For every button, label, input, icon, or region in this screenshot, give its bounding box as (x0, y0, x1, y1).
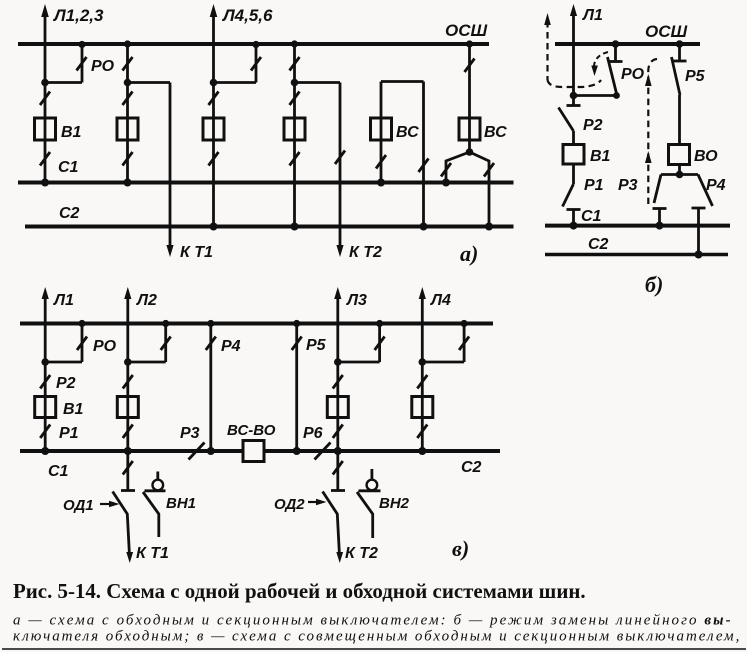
disconnector slash feeder1 lower (40, 152, 50, 166)
load switch VN1 stub (156, 472, 159, 480)
wire feeder3 vertical (212, 13, 215, 227)
disconnector OD1 stub slash (123, 461, 133, 475)
node feederV1 tap on bus (78, 320, 85, 327)
svg-text:а — схема с обходным и секцион: а — схема с обходным и секционным выключ… (13, 613, 733, 629)
disconnector feederV3 tap slash (375, 337, 385, 351)
line L4,5,6 arrow (210, 4, 218, 17)
disconnector R4 stub (697, 208, 700, 255)
wire R4 column vertical (209, 324, 212, 452)
svg-text:ВН1: ВН1 (166, 495, 196, 512)
svg-text:Л4: Л4 (430, 292, 451, 309)
wire bypass VS vertical (468, 44, 471, 152)
svg-text:С1: С1 (58, 159, 79, 176)
wire section breaker top (381, 80, 424, 83)
node feeder2 junction (124, 79, 132, 87)
breaker B1 b (563, 145, 584, 165)
load switch VN2 contact tick (359, 489, 381, 492)
breaker feederV2 (117, 397, 138, 418)
disconnector RO v slash (77, 337, 87, 351)
arrow KT1 v (126, 552, 133, 563)
node feederV4 on C2 (418, 447, 426, 455)
breaker feeder3 (203, 118, 224, 140)
node bypass VS bottom junction (466, 148, 474, 156)
line L1 arrow v (42, 287, 49, 299)
disconnector OD1 stub (126, 451, 129, 490)
svg-text:В1: В1 (61, 124, 82, 141)
svg-text:Л3: Л3 (346, 292, 367, 309)
disconnector R2 stub (572, 96, 575, 106)
svg-text:Р1: Р1 (59, 425, 79, 442)
dashed R3 path vertical (648, 59, 657, 204)
wire KT1 vertical (169, 83, 172, 249)
svg-text:Л1: Л1 (582, 7, 603, 24)
svg-text:Р2: Р2 (583, 117, 603, 134)
svg-text:ОД2: ОД2 (274, 496, 305, 513)
svg-text:К Т2: К Т2 (349, 244, 382, 261)
disconnector R5 stub (678, 44, 681, 60)
breaker VS section (371, 118, 392, 140)
svg-text:Р3: Р3 (180, 425, 200, 442)
line L1 arrow (570, 4, 577, 16)
node feeder1 junction (41, 79, 49, 87)
node feeder2 on bus (124, 40, 131, 47)
svg-text:Л4,5,6: Л4,5,6 (221, 6, 273, 25)
disconnector R1 open blade (563, 184, 574, 207)
line L3 arrow (334, 287, 341, 299)
node R5 on bus v (293, 320, 300, 327)
disconnector R5 open blade (672, 57, 681, 95)
arrowhead RO direction (591, 66, 598, 77)
breaker VS bypass (459, 118, 480, 140)
node R5 on bus (676, 40, 684, 48)
disconnector R4 open blade (698, 175, 713, 207)
disconnector OD1 contact tick (121, 489, 135, 492)
wire bypass branch to C2 (470, 152, 490, 227)
svg-text:ключателя обходным; в — схема: ключателя обходным; в — схема с совмещен… (13, 629, 741, 645)
wire bypass branch to C1 (446, 152, 470, 183)
disconnector OD1 open blade (113, 492, 130, 557)
svg-text:В1: В1 (63, 401, 84, 418)
wire feederV2 junction horizontal (128, 361, 166, 364)
disconnector slash feeder3 lower (209, 152, 219, 166)
disconnector R2 open blade (559, 108, 574, 132)
bottom rule (2, 648, 746, 650)
disconnector R2 contact tick (567, 104, 581, 107)
disconnector R4 contact tick (692, 207, 706, 210)
load switch VN2 stub (370, 469, 373, 480)
svg-text:Р2: Р2 (56, 375, 76, 392)
node bypass on C2 (485, 223, 493, 231)
breaker feeder4 (284, 118, 305, 140)
line L1,2,3 arrow (41, 4, 49, 17)
svg-text:К Т1: К Т1 (180, 244, 213, 261)
svg-text:ОСШ: ОСШ (645, 22, 688, 41)
disconnector OD2 open blade (323, 492, 340, 557)
dashed arrow RO closing direction (594, 52, 608, 69)
svg-text:С2: С2 (588, 236, 609, 253)
node feederV1 junction (41, 358, 49, 366)
disconnector RO b contact tick (609, 60, 623, 63)
breaker B1 (35, 118, 56, 140)
svg-text:В1: В1 (590, 148, 611, 165)
svg-text:ВС-ВО: ВС-ВО (227, 422, 276, 439)
load switch VN2 open blade (357, 492, 373, 538)
disconnector OD2 stub (336, 451, 339, 490)
disconnector slash feeder2 upper (123, 92, 133, 106)
line L2 arrow v (124, 287, 131, 299)
wire feederV4 tap vertical (463, 324, 466, 363)
wire feeder3 junction horizontal (214, 81, 257, 84)
wire VO right branch horizontal (680, 173, 699, 176)
arrowhead R3 path lower (645, 151, 652, 163)
svg-text:а): а) (460, 241, 478, 266)
node feederV3 junction (334, 358, 342, 366)
disconnector R1 v slash (40, 425, 50, 439)
svg-text:ВС: ВС (396, 124, 419, 141)
wire VO left branch horizontal (661, 173, 680, 176)
wire B1-R1 (572, 164, 575, 184)
dashed bypass flow curve (548, 80, 602, 87)
svg-text:С2: С2 (461, 459, 482, 476)
node bypass VS on bus (466, 40, 473, 47)
disconnector R5 v slash (292, 337, 302, 351)
svg-text:ОД1: ОД1 (63, 497, 94, 514)
node feederV2 tap on bus (162, 320, 169, 327)
node VS on C1 (377, 179, 385, 187)
arrowhead OD2 pointer (316, 499, 327, 505)
node feeder4 on bus (291, 40, 298, 47)
wire section breaker left leg (380, 82, 383, 183)
disconnector R3 stub (658, 209, 661, 226)
node L1 junction b (570, 92, 578, 100)
svg-text:РО: РО (91, 58, 115, 75)
svg-text:К Т1: К Т1 (136, 545, 169, 562)
svg-text:Р4: Р4 (221, 338, 241, 355)
node R4 on bus (207, 320, 214, 327)
arrowhead OD1 pointer (109, 501, 120, 507)
wire feederV4 junction horizontal (422, 361, 464, 364)
disconnector feederV2 lower slash (123, 425, 133, 439)
node RO tap on bus (78, 41, 85, 48)
wire feederV2 tap vertical (164, 324, 167, 363)
svg-text:ВС: ВС (484, 124, 507, 141)
load switch VN1 circle (153, 480, 164, 491)
node feederV3 on C2 (334, 447, 342, 455)
disconnector R1 contact tick (567, 208, 581, 211)
node R3 on C1 (656, 222, 664, 230)
svg-text:К Т2: К Т2 (345, 545, 378, 562)
bus C2 (working bus section 2) (25, 225, 514, 229)
bus OSSH (bypass busbar) (18, 42, 489, 46)
svg-text:С2: С2 (59, 205, 80, 222)
bus OSSH b (555, 42, 700, 46)
disconnector R4 v slash (206, 337, 216, 351)
wire feeder4 vertical (293, 44, 296, 227)
wire feederV2 vertical (126, 295, 129, 451)
svg-text:б): б) (645, 272, 663, 297)
node feeder4 on C2 (291, 223, 299, 231)
disconnector slash bypass-C1 (441, 163, 451, 177)
node R4 on C2 (695, 251, 703, 259)
disconnector slash KT2 (335, 151, 345, 165)
wire RO tap vertical (81, 44, 84, 83)
wire R5 column vertical (295, 324, 298, 452)
disconnector R5 contact tick (673, 60, 687, 63)
disconnector feederV4 tap slash (459, 337, 469, 351)
disconnector feederV2 upper slash (123, 375, 133, 389)
disconnector slash feeder3 upper (209, 92, 219, 106)
svg-text:ОСШ: ОСШ (445, 21, 488, 40)
node feederV4 tap on bus (461, 320, 468, 327)
arrow KT1 (166, 245, 173, 257)
svg-text:РО: РО (621, 66, 645, 83)
disconnector slash feeder1 upper (40, 92, 50, 106)
wire to KT2 horizontal (295, 81, 341, 84)
svg-text:С1: С1 (48, 463, 69, 480)
wire feeder3 tap vertical (255, 44, 258, 83)
disconnector R3 contact tick (653, 207, 667, 210)
wire section breaker right leg (422, 82, 425, 227)
disconnector slash feeder2 lower (123, 152, 133, 166)
wire feeder1 vertical (44, 13, 47, 183)
svg-text:Л1: Л1 (53, 292, 74, 309)
disconnector RO slash (77, 57, 87, 71)
node RO b on bus (612, 40, 620, 48)
wire KT2 vertical (339, 83, 342, 249)
node VO bottom junction (676, 171, 684, 179)
disconnector feederV4 lower slash (417, 425, 427, 439)
wire R2-B1 (572, 131, 575, 145)
breaker B1 v (35, 397, 56, 418)
load switch VN1 contact tick (145, 489, 166, 492)
node feederV2 junction (124, 358, 132, 366)
load switch VN1 open blade (143, 492, 159, 537)
disconnector R3 v slash on bus (189, 443, 205, 460)
svg-text:Л2: Л2 (136, 292, 157, 309)
dashed bypass flow arrow up (544, 13, 551, 25)
node bypass on C1 (442, 179, 450, 187)
node feeder3 tap on bus (252, 41, 259, 48)
wire VO bottom stub (678, 165, 681, 175)
disconnector slash VS right (419, 159, 429, 173)
disconnector R3 open blade (654, 175, 661, 204)
disconnector OD2 stub slash (333, 461, 343, 475)
arrow OD2 pointer (308, 501, 319, 503)
wire feeder2 vertical (126, 44, 129, 183)
wire L1 vertical (572, 12, 575, 96)
wire L1-RO horizontal (574, 94, 618, 97)
node feederV3 tap on bus (376, 320, 383, 327)
node feederV2 on C1 (124, 447, 132, 455)
svg-text:Рис. 5-14. Схема с одной рабоч: Рис. 5-14. Схема с одной рабочей и обход… (13, 579, 586, 603)
bus OSSH v (20, 322, 493, 326)
disconnector slash bypass VS top (465, 59, 475, 73)
disconnector slash VS left (376, 155, 386, 169)
disconnector R6 slash on bus (315, 443, 331, 460)
disconnector feederV4 upper slash (417, 375, 427, 389)
wire feederV4 vertical (421, 295, 424, 451)
node feeder2 on C1 (124, 179, 132, 187)
node feeder3 junction (210, 79, 218, 87)
wire feederV3 tap vertical (378, 324, 381, 363)
svg-text:Л1,2,3: Л1,2,3 (52, 6, 104, 25)
svg-text:РО: РО (93, 338, 117, 355)
breaker feederV4 (412, 397, 433, 418)
disconnector feederV2 tap slash (161, 337, 171, 351)
arrowhead R3 path upper (645, 74, 652, 86)
wire feederV3 junction horizontal (338, 361, 380, 364)
node R4 bottom junction (207, 447, 215, 455)
disconnector slash bypass-C2 (484, 163, 494, 177)
breaker VS-VO (243, 441, 264, 462)
wire to KT1 horizontal (128, 81, 171, 84)
node feederV1 on C1 (41, 447, 49, 455)
bus C2 b (545, 253, 728, 257)
bus C1 (working bus section 1) (18, 181, 514, 185)
breaker feederV3 (327, 397, 348, 418)
svg-text:С1: С1 (581, 208, 602, 225)
disconnector R2 v slash (40, 375, 50, 389)
svg-text:Р4: Р4 (706, 177, 726, 194)
node feeder4 junction (291, 79, 299, 87)
line L4 arrow (419, 287, 426, 299)
svg-text:Р5: Р5 (306, 337, 327, 354)
bus C1 b (545, 224, 730, 228)
wire feederV1 tap vertical (81, 324, 84, 363)
node RO blade bottom (613, 92, 620, 99)
disconnector slash feeder4 upper (290, 92, 300, 106)
wire feeder1 junction horizontal (45, 81, 82, 84)
node feederV4 junction (419, 358, 427, 366)
wire R5-VO (678, 95, 681, 145)
disconnector RO b stub (614, 44, 617, 61)
disconnector slash feeder4 lower (290, 152, 300, 166)
wire feederV3 vertical (336, 295, 339, 451)
arrow KT2 v (336, 552, 343, 563)
wire feederV1 vertical (44, 295, 47, 451)
svg-text:Р6: Р6 (303, 425, 323, 442)
arrow KT2 (336, 245, 343, 257)
disconnector slash feeder4 top (290, 57, 300, 71)
svg-text:ВН2: ВН2 (379, 495, 410, 512)
node feeder3 on C2 (210, 223, 218, 231)
wire feederV1 junction horizontal (45, 361, 82, 364)
svg-text:Р3: Р3 (618, 177, 638, 194)
breaker feeder2 (117, 118, 138, 140)
svg-text:Р1: Р1 (584, 177, 604, 194)
node L1 on C1 b (570, 222, 578, 230)
node feeder1 on C1 (41, 179, 49, 187)
disconnector feederV3 upper slash (333, 375, 343, 389)
load switch VN2 circle (367, 480, 378, 491)
disconnector RO b open blade (608, 57, 618, 96)
breaker VO (669, 145, 690, 165)
bus C1-C2 v (20, 449, 500, 453)
svg-text:в): в) (452, 536, 469, 561)
svg-text:ВО: ВО (694, 148, 718, 165)
disconnector slash feeder3 tap (251, 57, 261, 71)
node VS on C2 (420, 223, 428, 231)
svg-text:Р5: Р5 (685, 68, 706, 85)
disconnector R1 stub (572, 210, 575, 226)
disconnector OD2 contact tick (331, 489, 345, 492)
arrow OD1 pointer (100, 503, 112, 505)
dashed bypass flow vertical (546, 21, 548, 80)
disconnector feederV3 lower slash (333, 425, 343, 439)
node R5 bottom junction (293, 447, 301, 455)
disconnector slash feeder2 top (123, 57, 133, 71)
